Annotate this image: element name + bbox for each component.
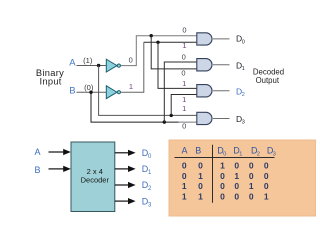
- svg-text:1: 1: [182, 104, 186, 113]
- svg-text:1: 1: [182, 191, 187, 201]
- svg-text:1: 1: [264, 191, 269, 201]
- table row 1: 0 0 | 1 0 0 0: [182, 160, 269, 170]
- svg-text:0: 0: [182, 25, 186, 34]
- svg-text:1: 1: [198, 191, 203, 201]
- svg-text:Decoder: Decoder: [81, 175, 110, 184]
- svg-text:0: 0: [249, 191, 254, 201]
- svg-text:0: 0: [198, 181, 203, 191]
- svg-text:0: 0: [220, 171, 225, 181]
- table column divider: [212, 145, 214, 203]
- truth table background: [169, 140, 316, 216]
- svg-text:0: 0: [249, 160, 254, 170]
- svg-text:2: 2: [257, 152, 260, 158]
- node B' junction: [156, 41, 159, 44]
- node A junction: [97, 64, 100, 67]
- svg-text:0: 0: [198, 160, 203, 170]
- inverter U1 (A'): [106, 59, 120, 72]
- wire arrow B into decoder: [49, 168, 65, 170]
- wire arrow D1 out of decoder: [115, 168, 129, 170]
- svg-text:0: 0: [182, 122, 186, 131]
- svg-text:1: 1: [182, 79, 186, 88]
- AND gate G2 (D1): [197, 59, 212, 71]
- wire B' from U2 up: [121, 42, 144, 92]
- wire arrow D3 out of decoder: [115, 200, 129, 202]
- svg-text:1: 1: [129, 82, 133, 91]
- svg-text:(0): (0): [84, 83, 94, 92]
- node B bus junction: [163, 120, 166, 123]
- svg-text:0: 0: [242, 39, 245, 45]
- wire A' branch to gate G2 bottom: [151, 36, 197, 69]
- svg-text:(1): (1): [83, 56, 93, 65]
- svg-text:0: 0: [234, 191, 239, 201]
- svg-text:0: 0: [220, 181, 225, 191]
- svg-text:2: 2: [242, 92, 245, 98]
- svg-text:B: B: [195, 145, 201, 155]
- svg-text:A: A: [181, 145, 187, 155]
- svg-text:0: 0: [182, 160, 187, 170]
- svg-text:B: B: [35, 165, 41, 175]
- AND gate G1 (D0): [197, 33, 212, 45]
- svg-text:0: 0: [223, 152, 226, 158]
- svg-text:0: 0: [182, 171, 187, 181]
- svg-text:A: A: [69, 58, 76, 69]
- table header underline: [175, 157, 275, 159]
- svg-text:3: 3: [273, 152, 276, 158]
- svg-text:A: A: [35, 147, 41, 157]
- svg-text:0: 0: [234, 160, 239, 170]
- svg-text:1: 1: [198, 171, 203, 181]
- wire G3 output: [213, 90, 230, 92]
- svg-text:0: 0: [264, 181, 269, 191]
- svg-text:0: 0: [234, 181, 239, 191]
- wire arrow D2 out of decoder: [115, 184, 129, 186]
- svg-text:0: 0: [264, 160, 269, 170]
- wire A branch down to gate G4 top: [99, 66, 197, 116]
- wire B branch down to gate G4 bottom: [91, 92, 179, 122]
- wire B riser to gate G2 top: [164, 62, 197, 122]
- svg-text:0: 0: [129, 56, 133, 65]
- svg-text:1: 1: [220, 160, 225, 170]
- AND gate G4 (D3): [197, 112, 212, 124]
- svg-text:1: 1: [182, 41, 186, 50]
- svg-text:1: 1: [242, 66, 245, 72]
- svg-text:0: 0: [181, 68, 185, 77]
- svg-text:1: 1: [234, 171, 239, 181]
- wire arrow A into decoder: [49, 151, 65, 153]
- table row 2: 0 1 | 0 1 0 0: [182, 171, 269, 181]
- svg-text:0: 0: [249, 171, 254, 181]
- decoder block U3: [71, 142, 115, 212]
- svg-text:1: 1: [182, 95, 186, 104]
- node A bus junction: [170, 114, 173, 117]
- wire B into gate G4 bottom: [179, 121, 197, 123]
- inverter U2 (B'): [106, 86, 120, 99]
- wire G2 output: [213, 64, 230, 66]
- node B junction: [89, 91, 92, 94]
- wire A input: [77, 65, 107, 67]
- svg-text:0: 0: [264, 171, 269, 181]
- svg-text:0: 0: [182, 52, 186, 61]
- AND gate G3 (D2): [197, 85, 212, 97]
- wire B' branch to gate G3 top: [158, 42, 197, 88]
- svg-text:1: 1: [182, 181, 187, 191]
- svg-text:1: 1: [239, 152, 242, 158]
- svg-text:3: 3: [242, 120, 245, 126]
- wire B' into gate G1 bottom: [144, 41, 197, 43]
- table row 4: 1 1 | 0 0 0 1: [182, 191, 269, 201]
- wire G4 output: [213, 118, 230, 120]
- wire B input: [77, 91, 107, 93]
- svg-text:B: B: [69, 86, 75, 97]
- table row 3: 1 0 | 0 0 1 0: [182, 181, 269, 191]
- wire arrow D0 out of decoder: [115, 152, 129, 154]
- svg-text:0: 0: [220, 191, 225, 201]
- svg-text:Input: Input: [40, 77, 62, 87]
- wire G1 output: [213, 38, 230, 40]
- node A' junction: [150, 34, 153, 37]
- svg-text:1: 1: [249, 181, 254, 191]
- svg-text:Output: Output: [256, 76, 280, 85]
- wire A riser to gate G3 bottom: [171, 95, 197, 116]
- wire A' from U1 to gate G1 top: [121, 36, 197, 66]
